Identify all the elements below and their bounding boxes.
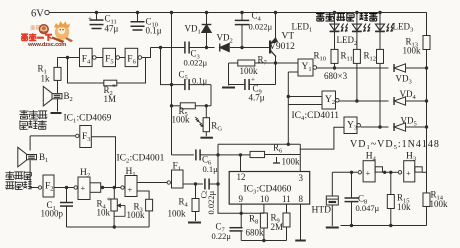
svg-text:6V: 6V [31, 9, 44, 20]
svg-text:9: 9 [239, 194, 244, 204]
svg-text:+: + [406, 168, 411, 178]
svg-text:VT: VT [282, 32, 295, 42]
svg-text:+: + [88, 15, 92, 23]
svg-text:V9012: V9012 [269, 42, 295, 52]
svg-text::CD4001: :CD4001 [130, 154, 165, 164]
svg-text:*: * [107, 196, 111, 205]
svg-text:0.022μ: 0.022μ [249, 22, 273, 32]
svg-text:IC: IC [244, 185, 254, 195]
svg-text:100k: 100k [403, 46, 422, 56]
svg-text:1M: 1M [104, 94, 117, 104]
svg-text:1k: 1k [41, 74, 51, 84]
svg-text:8: 8 [299, 194, 304, 204]
svg-text::CD4060: :CD4060 [257, 185, 292, 195]
svg-text:680×3: 680×3 [324, 71, 348, 81]
svg-text:3: 3 [299, 173, 304, 183]
svg-text:100k: 100k [168, 209, 187, 219]
svg-text:100k: 100k [172, 115, 191, 125]
svg-text:11: 11 [282, 194, 291, 204]
svg-text:+: + [251, 76, 255, 84]
svg-text:IC: IC [292, 111, 302, 121]
svg-text:+: + [128, 185, 133, 195]
svg-text:10: 10 [260, 194, 270, 204]
svg-text:0.1μ: 0.1μ [146, 26, 162, 36]
svg-text:HTD: HTD [312, 206, 332, 216]
svg-text:100k: 100k [430, 199, 449, 209]
svg-text:0.22μ: 0.22μ [212, 231, 232, 241]
svg-text:2M: 2M [271, 222, 284, 232]
svg-text:1000p: 1000p [41, 209, 64, 219]
svg-text:0.022μ: 0.022μ [206, 190, 216, 214]
svg-text:+: + [81, 183, 86, 193]
svg-text:0.1μ: 0.1μ [203, 164, 219, 174]
svg-text:0.047μ: 0.047μ [356, 203, 380, 213]
svg-text:www.dzsc.com: www.dzsc.com [27, 42, 66, 48]
svg-text:10k: 10k [397, 202, 411, 212]
svg-text::CD4069: :CD4069 [77, 114, 112, 124]
svg-text:100k: 100k [127, 210, 146, 220]
svg-text:IC: IC [117, 154, 127, 164]
svg-text:680k: 680k [246, 228, 265, 238]
svg-text:12: 12 [237, 172, 246, 182]
svg-text:*: * [112, 83, 116, 92]
svg-text:0.022μ: 0.022μ [184, 58, 208, 68]
svg-text:100k: 100k [240, 66, 259, 76]
svg-text:10k: 10k [97, 208, 111, 218]
svg-text::CD4011: :CD4011 [305, 111, 340, 121]
svg-text:+: + [366, 168, 371, 178]
svg-text:IC: IC [64, 114, 74, 124]
svg-text:0.1μ: 0.1μ [192, 76, 208, 86]
svg-text:100k: 100k [282, 157, 301, 167]
svg-text:4.7μ: 4.7μ [249, 93, 265, 103]
svg-text:47μ: 47μ [105, 24, 119, 34]
